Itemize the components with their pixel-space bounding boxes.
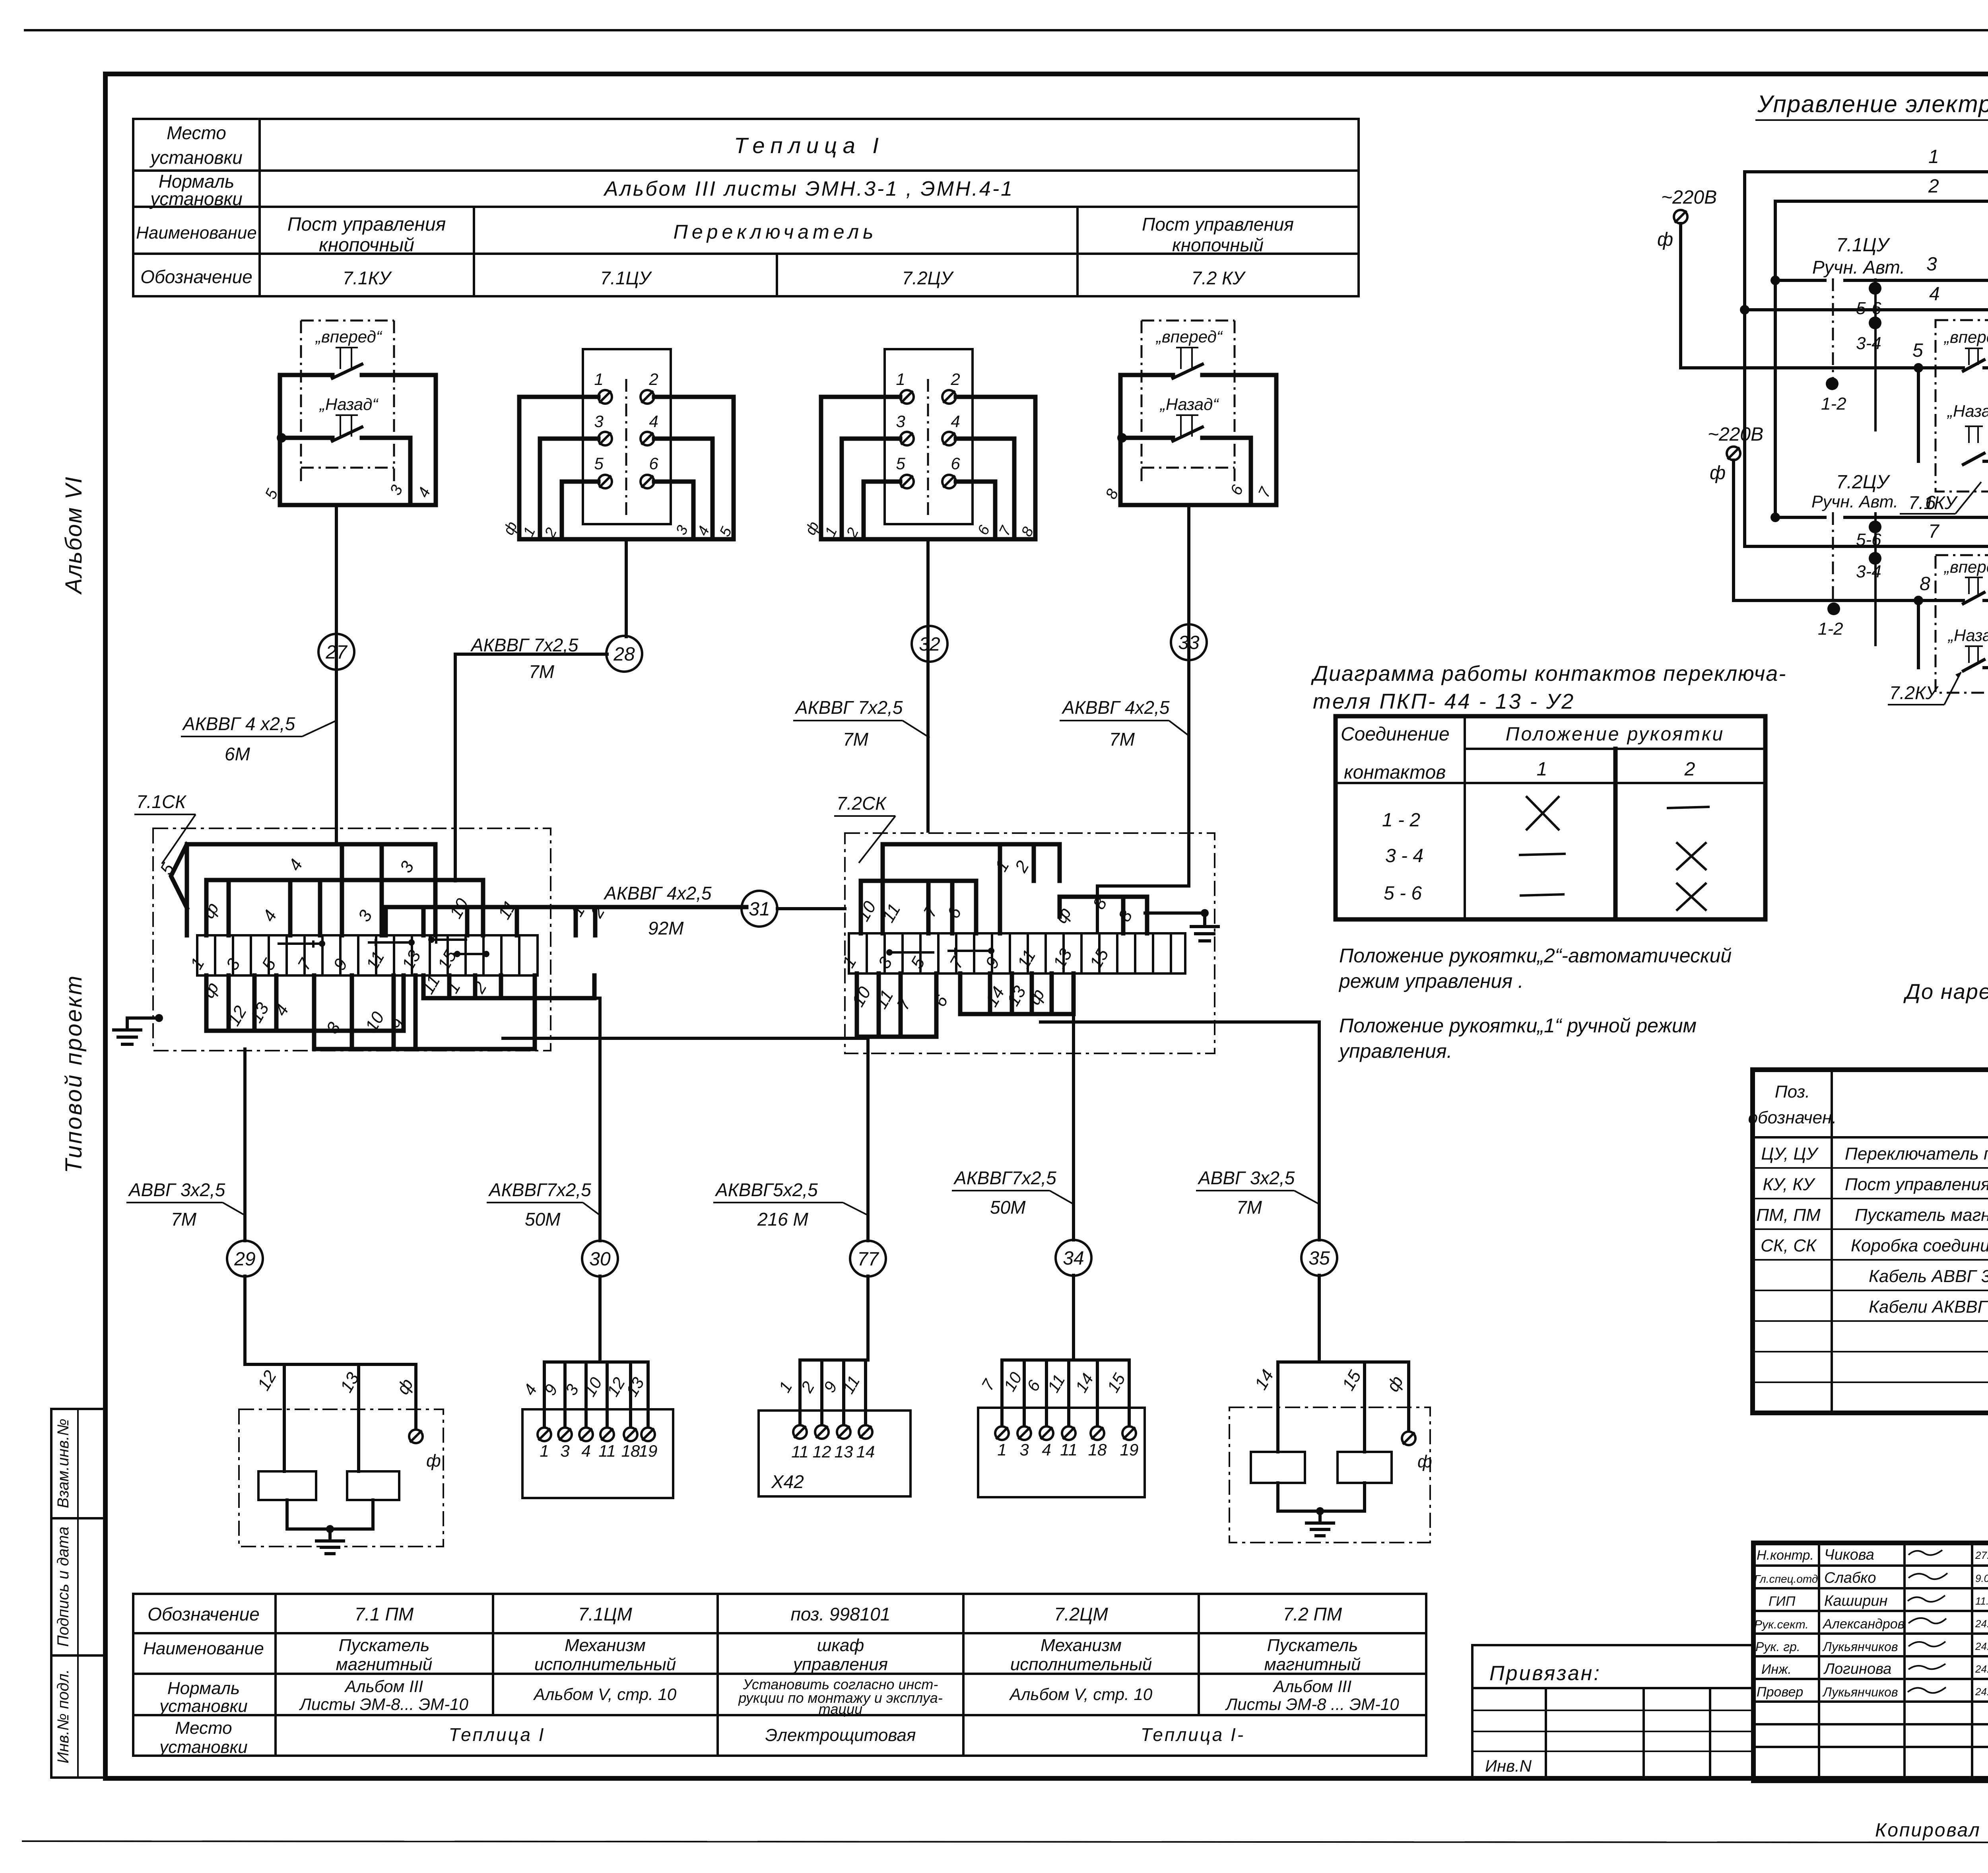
svg-text:4: 4 [1042, 1440, 1051, 1459]
svg-text:1: 1 [896, 370, 905, 389]
svg-text:Ручн. Авт.: Ручн. Авт. [1811, 492, 1898, 511]
svg-text:7М: 7М [529, 661, 555, 682]
svg-text:установки: установки [149, 188, 243, 209]
svg-text:АВВГ 3х2,5: АВВГ 3х2,5 [1197, 1168, 1295, 1188]
svg-text:Альбом VI: Альбом VI [61, 476, 87, 595]
svg-text:Провер: Провер [1757, 1685, 1803, 1700]
svg-text:2: 2 [950, 370, 960, 389]
svg-text:магнитный: магнитный [336, 1655, 433, 1674]
svg-text:„вперед“: „вперед“ [1943, 328, 1988, 346]
svg-text:18: 18 [1088, 1440, 1107, 1459]
svg-text:Чикова: Чикова [1824, 1547, 1874, 1563]
svg-text:Альбом V, стр. 10: Альбом V, стр. 10 [1009, 1685, 1153, 1704]
svg-text:7.2ЦМ: 7.2ЦМ [1054, 1604, 1108, 1624]
svg-text:Соединение: Соединение [1341, 724, 1450, 745]
svg-text:7М: 7М [1109, 729, 1135, 750]
svg-text:Кабель АВВГ 3х2,5 ГОСТ 16442: Кабель АВВГ 3х2,5 ГОСТ 16442-80 [1869, 1267, 1988, 1286]
svg-text:31: 31 [749, 899, 770, 920]
svg-text:Обозначение: Обозначение [148, 1604, 260, 1624]
svg-text:7М: 7М [171, 1209, 197, 1230]
svg-text:3: 3 [560, 1442, 569, 1460]
svg-text:Альбом III листы ЭМН.3-1 , ЭМН: Альбом III листы ЭМН.3-1 , ЭМН.4-1 [603, 177, 1014, 200]
svg-text:3 - 4: 3 - 4 [1385, 845, 1423, 867]
svg-text:92М: 92М [648, 918, 684, 938]
svg-text:исполнительный: исполнительный [534, 1655, 676, 1674]
svg-text:Пост управления: Пост управления [1142, 214, 1294, 235]
svg-text:7М: 7М [843, 729, 869, 750]
svg-text:24.06.83: 24.06.83 [1975, 1640, 1988, 1652]
svg-text:4: 4 [951, 412, 960, 431]
svg-text:установки: установки [158, 1737, 248, 1757]
svg-text:Александров: Александров [1822, 1617, 1905, 1632]
svg-text:4: 4 [1929, 284, 1940, 305]
svg-text:„вперед“: „вперед“ [1155, 327, 1223, 346]
svg-text:тации: тации [819, 1701, 862, 1717]
svg-text:7.1СК: 7.1СК [136, 791, 187, 812]
svg-text:исполнительный: исполнительный [1010, 1655, 1152, 1674]
svg-text:Механизм: Механизм [1041, 1636, 1122, 1655]
svg-text:Переключатель: Переключатель [674, 221, 878, 243]
svg-text:6: 6 [1925, 492, 1936, 513]
svg-text:19: 19 [639, 1442, 658, 1460]
svg-text:Поз.: Поз. [1775, 1082, 1810, 1102]
svg-text:Наименование: Наименование [136, 223, 257, 243]
svg-text:2: 2 [1928, 176, 1939, 197]
svg-text:Нормаль: Нормаль [167, 1679, 240, 1698]
svg-text:33: 33 [1178, 632, 1200, 653]
svg-text:Теплица I: Теплица I [449, 1724, 546, 1745]
svg-text:Лукьянчиков: Лукьянчиков [1822, 1685, 1898, 1699]
svg-text:32: 32 [919, 634, 940, 655]
svg-text:Управление электроприводами: Управление электроприводами теплозащитно… [1757, 91, 1988, 117]
svg-text:„Назад“: „Назад“ [319, 395, 379, 414]
svg-text:3: 3 [594, 412, 603, 431]
svg-text:Инв.N: Инв.N [1485, 1756, 1532, 1775]
svg-text:50М: 50М [525, 1209, 561, 1230]
svg-text:Диаграмма работы контактов пер: Диаграмма работы контактов переключа- [1311, 662, 1786, 686]
svg-text:13: 13 [835, 1442, 853, 1461]
svg-text:ф: ф [426, 1451, 441, 1471]
svg-text:30: 30 [589, 1249, 611, 1270]
svg-text:Каширин: Каширин [1824, 1593, 1887, 1609]
svg-text:Теплица I-: Теплица I- [1141, 1724, 1245, 1745]
svg-text:Альбом V, стр. 10: Альбом V, стр. 10 [533, 1685, 677, 1704]
svg-text:„вперед“: „вперед“ [1943, 558, 1988, 576]
svg-text:1: 1 [1928, 146, 1939, 167]
svg-text:3-4: 3-4 [1856, 334, 1881, 353]
svg-text:11: 11 [791, 1442, 809, 1461]
svg-text:контактов: контактов [1344, 762, 1446, 783]
svg-text:24.06.83: 24.06.83 [1975, 1686, 1988, 1698]
svg-text:7: 7 [1928, 521, 1940, 542]
svg-text:Листы ЭМ-8... ЭМ-10: Листы ЭМ-8... ЭМ-10 [299, 1695, 468, 1714]
svg-text:установки: установки [149, 147, 243, 168]
svg-text:11.06.83: 11.06.83 [1975, 1595, 1988, 1607]
svg-text:7.2ЦУ: 7.2ЦУ [902, 268, 954, 288]
svg-text:Место: Место [167, 122, 226, 143]
svg-text:50М: 50М [990, 1197, 1026, 1218]
svg-text:теля ПКП- 44 - 13 - У2: теля ПКП- 44 - 13 - У2 [1313, 690, 1575, 713]
svg-text:АКВВГ 7х2,5: АКВВГ 7х2,5 [470, 635, 579, 655]
svg-text:АКВВГ 4х2,5: АКВВГ 4х2,5 [603, 883, 712, 903]
svg-text:35: 35 [1309, 1248, 1330, 1269]
svg-text:Положение рукоятки„1“ ручной: Положение рукоятки„1“ ручной режим [1339, 1014, 1697, 1037]
svg-text:поз. 998101: поз. 998101 [791, 1604, 891, 1624]
svg-text:Место: Место [175, 1718, 232, 1738]
svg-text:магнитный: магнитный [1264, 1655, 1361, 1674]
svg-text:7.2КУ: 7.2КУ [1889, 682, 1939, 703]
svg-text:Х42: Х42 [771, 1471, 804, 1492]
svg-text:11: 11 [1060, 1440, 1077, 1459]
svg-text:Взам.инв.№: Взам.инв.№ [54, 1418, 72, 1508]
svg-text:Обозначение: Обозначение [140, 266, 252, 287]
svg-text:До нарезки кабелей длины трас: До нарезки кабелей длины трасс уточнить … [1903, 980, 1988, 1004]
svg-text:7.2 КУ: 7.2 КУ [1191, 268, 1246, 288]
svg-text:5: 5 [594, 454, 604, 473]
svg-text:Инв.№ подл.: Инв.№ подл. [54, 1669, 72, 1763]
svg-text:Рук.сект.: Рук.сект. [1754, 1618, 1809, 1631]
svg-text:77: 77 [857, 1249, 879, 1270]
svg-text:Листы ЭМ-8 ... ЭМ-10: Листы ЭМ-8 ... ЭМ-10 [1225, 1695, 1399, 1714]
svg-text:6: 6 [951, 454, 960, 473]
svg-text:Механизм: Механизм [565, 1636, 646, 1655]
svg-text:АКВВГ 4 х2,5: АКВВГ 4 х2,5 [182, 713, 295, 734]
svg-text:Копировал Фомушкина: Копировал Фомушкина [1875, 1820, 1988, 1841]
svg-text:19: 19 [1120, 1440, 1139, 1459]
svg-text:Коробка соединительная КСК-16: Коробка соединительная КСК-16 ТУ36.1073-… [1851, 1236, 1988, 1255]
svg-text:АКВВГ5х2,5: АКВВГ5х2,5 [714, 1179, 818, 1200]
svg-text:кнопочный: кнопочный [1172, 235, 1264, 255]
svg-text:Положение рукоятки„2“-автомати: Положение рукоятки„2“-автоматический [1339, 944, 1732, 967]
svg-text:Типовой проект: Типовой проект [61, 974, 87, 1174]
svg-text:Положение рукоятки: Положение рукоятки [1506, 724, 1724, 745]
svg-text:Ручн. Авт.: Ручн. Авт. [1812, 257, 1905, 278]
svg-text:Подпись и дата: Подпись и дата [54, 1527, 72, 1647]
svg-text:СК, СК: СК, СК [1761, 1236, 1817, 1255]
svg-text:Теплица I: Теплица I [734, 133, 884, 158]
svg-text:6: 6 [649, 454, 658, 473]
svg-text:14: 14 [856, 1442, 875, 1461]
svg-text:6М: 6М [225, 744, 250, 764]
svg-text:1-2: 1-2 [1818, 619, 1843, 639]
svg-text:Логинова: Логинова [1823, 1661, 1891, 1677]
svg-text:28: 28 [613, 644, 635, 665]
svg-text:АКВВГ7х2,5: АКВВГ7х2,5 [488, 1179, 591, 1200]
svg-text:Рук. гр.: Рук. гр. [1755, 1640, 1800, 1654]
svg-text:5: 5 [896, 454, 905, 473]
svg-text:Переключатель пакетный ПКП25-4: Переключатель пакетный ПКП25-44 - 13- У2 [1845, 1144, 1988, 1164]
svg-text:27: 27 [325, 642, 348, 663]
svg-text:1: 1 [997, 1440, 1006, 1459]
svg-text:~220В: ~220В [1661, 187, 1717, 208]
svg-text:3-4: 3-4 [1856, 562, 1881, 581]
svg-text:обозначен.: обозначен. [1748, 1108, 1837, 1127]
svg-text:АКВВГ7х2,5: АКВВГ7х2,5 [953, 1168, 1056, 1188]
svg-text:1-2: 1-2 [1821, 394, 1846, 414]
svg-text:Инж.: Инж. [1761, 1662, 1792, 1677]
svg-text:27.07.85: 27.07.85 [1975, 1549, 1988, 1561]
svg-text:4: 4 [581, 1442, 590, 1460]
svg-text:ф: ф [1657, 229, 1673, 250]
svg-text:„Назад“: „Назад“ [1947, 402, 1988, 420]
svg-text:1: 1 [540, 1442, 549, 1460]
svg-text:3: 3 [1926, 254, 1937, 275]
svg-text:2: 2 [1684, 759, 1695, 780]
svg-text:шкаф: шкаф [817, 1636, 864, 1655]
svg-text:5: 5 [1912, 340, 1923, 361]
svg-text:управления.: управления. [1338, 1040, 1452, 1062]
svg-text:АВВГ 3х2,5: АВВГ 3х2,5 [128, 1179, 225, 1200]
svg-text:Гл.спец.отд: Гл.спец.отд [1754, 1573, 1818, 1585]
svg-text:24.06.83: 24.06.83 [1975, 1618, 1988, 1630]
svg-text:Пост управления кнопочный ПКЕ: Пост управления кнопочный ПКЕ222-2 [1845, 1175, 1988, 1194]
svg-text:24.06.83: 24.06.83 [1975, 1663, 1988, 1675]
svg-text:29: 29 [234, 1249, 255, 1270]
svg-text:режим управления .: режим управления . [1338, 970, 1524, 992]
svg-text:Альбом III: Альбом III [344, 1677, 423, 1696]
svg-text:7.2ЦУ: 7.2ЦУ [1836, 472, 1891, 493]
svg-text:3: 3 [896, 412, 905, 431]
svg-text:ПМ, ПМ: ПМ, ПМ [1756, 1205, 1821, 1225]
svg-text:Пост управления: Пост управления [287, 214, 446, 235]
svg-text:Лукьянчиков: Лукьянчиков [1822, 1640, 1898, 1654]
svg-text:216 М: 216 М [757, 1209, 809, 1230]
svg-text:Пускатель: Пускатель [1267, 1636, 1358, 1655]
svg-text:5 - 6: 5 - 6 [1384, 883, 1422, 904]
svg-text:1: 1 [594, 370, 603, 389]
svg-text:1: 1 [1537, 759, 1547, 780]
svg-text:ф: ф [1710, 462, 1726, 484]
svg-text:7.2 ПМ: 7.2 ПМ [1283, 1604, 1342, 1624]
svg-text:7М: 7М [1237, 1197, 1262, 1218]
svg-text:7.1ЦУ: 7.1ЦУ [600, 268, 652, 288]
svg-text:Н.контр.: Н.контр. [1757, 1548, 1814, 1563]
svg-text:ГИП: ГИП [1769, 1594, 1796, 1609]
svg-text:3: 3 [1019, 1440, 1029, 1459]
svg-text:11: 11 [598, 1442, 616, 1460]
svg-text:7.1ЦУ: 7.1ЦУ [1836, 235, 1891, 256]
svg-text:кнопочный: кнопочный [319, 235, 414, 256]
svg-text:„Назад“: „Назад“ [1159, 395, 1219, 414]
svg-text:ЦУ, ЦУ: ЦУ, ЦУ [1761, 1144, 1819, 1164]
svg-text:7.1КУ: 7.1КУ [343, 268, 392, 288]
svg-text:12: 12 [813, 1442, 831, 1461]
svg-text:Пускатель магнитный: Пускатель магнитный [1855, 1205, 1988, 1225]
svg-text:Кабели АКВВГ ГОСТ 1508-7: Кабели АКВВГ ГОСТ 1508-78 [1869, 1297, 1988, 1317]
svg-text:управления: управления [792, 1655, 888, 1674]
svg-text:1 - 2: 1 - 2 [1382, 810, 1420, 831]
svg-text:4: 4 [649, 412, 658, 431]
svg-text:5-6: 5-6 [1856, 299, 1881, 318]
svg-text:ф: ф [1417, 1452, 1432, 1471]
svg-text:Электрощитовая: Электрощитовая [765, 1725, 916, 1745]
svg-text:7.2СК: 7.2СК [837, 793, 887, 814]
svg-text:34: 34 [1063, 1248, 1084, 1269]
svg-text:9.06.83: 9.06.83 [1975, 1572, 1988, 1584]
svg-text:установки: установки [158, 1696, 248, 1716]
svg-text:АКВВГ 7х2,5: АКВВГ 7х2,5 [794, 697, 903, 718]
svg-text:8: 8 [1920, 573, 1930, 595]
svg-text:2: 2 [648, 370, 658, 389]
svg-text:Наименование: Наименование [143, 1639, 264, 1658]
svg-text:7.1ЦМ: 7.1ЦМ [578, 1604, 632, 1624]
svg-text:„Назад“: „Назад“ [1947, 626, 1988, 645]
svg-text:Привязан:: Привязан: [1489, 1662, 1601, 1685]
svg-text:КУ, КУ: КУ, КУ [1763, 1175, 1815, 1194]
svg-text:„вперед“: „вперед“ [315, 327, 382, 346]
svg-text:Альбом III: Альбом III [1272, 1677, 1352, 1696]
svg-text:Пускатель: Пускатель [339, 1636, 430, 1655]
svg-text:18: 18 [621, 1442, 640, 1460]
svg-text:Слабко: Слабко [1824, 1570, 1876, 1586]
svg-text:7.1 ПМ: 7.1 ПМ [355, 1604, 414, 1624]
svg-text:АКВВГ 4х2,5: АКВВГ 4х2,5 [1061, 697, 1170, 718]
svg-text:~220В: ~220В [1708, 424, 1763, 445]
